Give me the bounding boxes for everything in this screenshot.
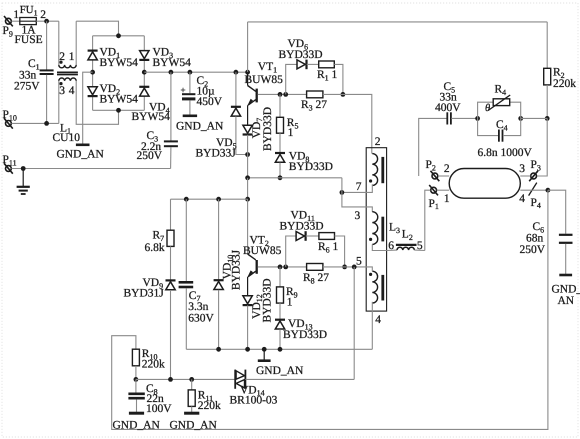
svg-text:3: 3 bbox=[355, 210, 361, 222]
svg-text:1: 1 bbox=[444, 193, 450, 205]
svg-text:2: 2 bbox=[40, 9, 46, 21]
wire bbox=[58, 21, 60, 65]
junction bbox=[278, 92, 283, 97]
svg-text:BUW85: BUW85 bbox=[243, 245, 282, 257]
junction bbox=[245, 347, 250, 352]
inductor L2 bbox=[387, 229, 425, 252]
wire bbox=[76, 21, 118, 36]
diode VD11 bbox=[280, 210, 324, 267]
wire bbox=[372, 244, 386, 250]
svg-text:4: 4 bbox=[69, 85, 75, 97]
svg-text:GND_AN: GND_AN bbox=[170, 420, 218, 432]
wire bbox=[186, 348, 372, 350]
resistor R11 bbox=[170, 379, 222, 431]
diode VD10 bbox=[214, 199, 243, 349]
terminal P9 bbox=[3, 16, 13, 38]
junction bbox=[245, 175, 250, 180]
diode VD5 bbox=[196, 72, 248, 159]
svg-text:BYD33D: BYD33D bbox=[262, 107, 274, 151]
diode VD13 bbox=[275, 303, 327, 349]
junction bbox=[116, 33, 121, 38]
svg-text:1: 1 bbox=[288, 127, 294, 139]
wire bbox=[171, 198, 248, 200]
svg-text:250V: 250V bbox=[520, 244, 546, 256]
junction bbox=[341, 92, 346, 97]
diode VD3 bbox=[139, 47, 191, 70]
junction bbox=[44, 121, 49, 126]
svg-text:GND_AN: GND_AN bbox=[176, 121, 224, 133]
junction bbox=[134, 377, 139, 382]
junction bbox=[169, 70, 174, 75]
junction bbox=[188, 70, 193, 75]
svg-text:1: 1 bbox=[13, 9, 19, 21]
junction bbox=[142, 70, 147, 75]
winding 2 (pins 3-6) bbox=[355, 210, 401, 252]
wire bbox=[342, 184, 372, 192]
junction bbox=[216, 197, 221, 202]
svg-text:275V: 275V bbox=[14, 81, 40, 93]
svg-text:R8 27: R8 27 bbox=[303, 272, 329, 285]
diode VD1 bbox=[88, 47, 138, 70]
inductor L1 (common-mode choke CU10) bbox=[53, 51, 81, 144]
junction bbox=[21, 166, 26, 171]
svg-text:GND_AN: GND_AN bbox=[256, 365, 304, 377]
svg-text:1: 1 bbox=[69, 51, 75, 63]
ground GND_AN (mid) bbox=[256, 349, 304, 377]
wire bbox=[425, 190, 431, 250]
wire (base line VT1) bbox=[258, 93, 307, 95]
capacitor C7 bbox=[179, 199, 215, 349]
terminal P4 (slash) bbox=[519, 183, 541, 211]
wire bbox=[12, 20, 20, 22]
junction bbox=[245, 197, 250, 202]
svg-text:68n: 68n bbox=[526, 233, 544, 245]
svg-text:BYW54: BYW54 bbox=[153, 57, 192, 69]
svg-text:BYD33D: BYD33D bbox=[280, 221, 324, 233]
resistor R7 bbox=[145, 199, 175, 254]
svg-text:2: 2 bbox=[375, 136, 381, 148]
terminal P2 bbox=[426, 159, 450, 181]
svg-text:4: 4 bbox=[375, 314, 381, 326]
wire bbox=[247, 178, 249, 199]
wire bbox=[520, 189, 548, 191]
wire bbox=[46, 21, 48, 69]
wire bbox=[93, 109, 145, 111]
junction bbox=[116, 108, 121, 113]
wire bbox=[12, 122, 59, 124]
wire bbox=[143, 36, 145, 111]
svg-text:6.8n 1000V: 6.8n 1000V bbox=[478, 147, 533, 159]
wire (base line VT2) bbox=[258, 266, 307, 268]
svg-text:CU10: CU10 bbox=[53, 132, 81, 144]
svg-text:400V: 400V bbox=[435, 102, 461, 114]
resistor R2 bbox=[544, 22, 577, 119]
wire bbox=[248, 177, 342, 179]
wire bbox=[323, 266, 354, 268]
wire bbox=[92, 36, 94, 111]
svg-text:220k: 220k bbox=[142, 359, 165, 371]
svg-text:GND_AN: GND_AN bbox=[57, 149, 105, 161]
wire bbox=[438, 175, 449, 177]
resistor R1 bbox=[307, 61, 343, 94]
wire bbox=[245, 378, 354, 380]
junction bbox=[262, 347, 267, 352]
terminal P10 bbox=[3, 109, 17, 128]
terminal P1 bbox=[429, 185, 450, 211]
svg-text:GND_AN: GND_AN bbox=[113, 420, 161, 432]
resistor R5 bbox=[277, 94, 299, 139]
svg-text:4: 4 bbox=[519, 193, 525, 205]
svg-text:100V: 100V bbox=[146, 403, 172, 415]
wire bbox=[93, 35, 145, 37]
wire bbox=[437, 189, 449, 191]
svg-text:θ: θ bbox=[485, 103, 490, 114]
capacitor C5 bbox=[419, 81, 478, 176]
junction bbox=[352, 265, 357, 270]
resistor R3 bbox=[301, 91, 327, 112]
terminal P11 bbox=[3, 154, 17, 174]
junction bbox=[245, 70, 250, 75]
junction bbox=[90, 70, 95, 75]
capacitor C4 bbox=[478, 118, 533, 159]
svg-text:5: 5 bbox=[417, 240, 423, 252]
svg-text:BYD33D: BYD33D bbox=[261, 278, 273, 322]
wire bbox=[520, 175, 530, 177]
capacitor C2 (electrolytic) bbox=[181, 75, 223, 108]
junction bbox=[475, 116, 480, 121]
svg-text:R3 27: R3 27 bbox=[301, 99, 327, 112]
wire bbox=[58, 81, 60, 124]
junction bbox=[283, 92, 288, 97]
svg-text:3.3n: 3.3n bbox=[188, 301, 208, 313]
junction bbox=[44, 19, 49, 24]
winding 1 (pins 2-7) bbox=[356, 136, 383, 193]
wire bbox=[248, 21, 548, 23]
wire bbox=[189, 100, 191, 114]
junction bbox=[545, 116, 550, 121]
svg-text:BYD33J: BYD33J bbox=[231, 249, 243, 290]
svg-text:3: 3 bbox=[519, 163, 525, 175]
svg-text:FUSE: FUSE bbox=[15, 34, 43, 46]
junction bbox=[546, 188, 551, 193]
capacitor C3 bbox=[137, 130, 178, 162]
wire bbox=[170, 147, 172, 169]
junction bbox=[189, 377, 194, 382]
svg-text:6.8k: 6.8k bbox=[145, 242, 165, 254]
wire bbox=[323, 94, 372, 153]
ground GND_AN (bridge) bbox=[57, 145, 105, 161]
svg-text:220k: 220k bbox=[553, 78, 576, 90]
wire bbox=[12, 168, 171, 170]
capacitor C1 bbox=[14, 58, 54, 93]
svg-text:BUW85: BUW85 bbox=[245, 74, 284, 86]
junction bbox=[342, 265, 347, 270]
svg-text:2: 2 bbox=[444, 163, 450, 175]
diode VD7 bbox=[243, 107, 274, 178]
wire bbox=[75, 21, 77, 65]
junction bbox=[518, 116, 523, 121]
junction bbox=[234, 70, 239, 75]
diode VD6 bbox=[279, 38, 323, 94]
wire bbox=[36, 20, 59, 22]
svg-text:BYD33D: BYD33D bbox=[279, 49, 323, 61]
resistor R8 bbox=[303, 264, 329, 286]
junction bbox=[278, 347, 283, 352]
wire bbox=[46, 75, 48, 124]
diode VD4 bbox=[132, 87, 171, 123]
svg-text:BYW54: BYW54 bbox=[132, 111, 171, 123]
svg-text:1: 1 bbox=[287, 297, 293, 309]
diode VD12 bbox=[243, 278, 274, 349]
wire bbox=[76, 81, 118, 124]
svg-text:BYD31J: BYD31J bbox=[124, 287, 165, 299]
resistor R9 bbox=[277, 267, 298, 309]
svg-text:BYD33D: BYD33D bbox=[283, 329, 327, 341]
earth ground bbox=[17, 169, 30, 195]
wire bbox=[83, 72, 93, 144]
wire bbox=[136, 378, 235, 380]
svg-text:33n: 33n bbox=[19, 69, 37, 81]
svg-text:5: 5 bbox=[356, 256, 362, 268]
capacitor C8 bbox=[113, 379, 173, 431]
svg-text:250V: 250V bbox=[137, 150, 163, 162]
svg-text:AN: AN bbox=[558, 295, 575, 307]
fuse FU1 bbox=[13, 4, 46, 46]
ground GND_AN (C2) bbox=[176, 116, 224, 133]
wire bbox=[144, 71, 247, 73]
svg-text:630V: 630V bbox=[188, 312, 214, 324]
junction bbox=[278, 265, 283, 270]
junction bbox=[245, 152, 250, 157]
wire bbox=[112, 190, 548, 429]
transistor VT2 (BUW85) bbox=[243, 199, 282, 296]
resistor R6 bbox=[306, 233, 345, 267]
junction bbox=[184, 197, 189, 202]
svg-text:450V: 450V bbox=[197, 96, 223, 108]
svg-text:BYD33J: BYD33J bbox=[196, 147, 237, 159]
transistor VT1 (BUW85) bbox=[245, 61, 284, 125]
wire bbox=[521, 117, 548, 119]
wire bbox=[371, 302, 373, 350]
svg-text:BYD33D: BYD33D bbox=[289, 161, 333, 173]
svg-text:BYW54: BYW54 bbox=[100, 57, 139, 69]
wire bbox=[537, 118, 547, 176]
diode VD2 bbox=[88, 83, 138, 106]
svg-text:GND_: GND_ bbox=[552, 284, 580, 296]
transformer L3 core box bbox=[366, 148, 386, 311]
capacitor C6 bbox=[520, 190, 580, 307]
lamp EL1 bbox=[449, 169, 520, 199]
diode VD9 bbox=[124, 246, 176, 379]
wire bbox=[342, 178, 372, 212]
wire bbox=[354, 267, 372, 271]
junction bbox=[216, 347, 221, 352]
resistor R10 bbox=[132, 348, 165, 379]
svg-text:220k: 220k bbox=[198, 400, 221, 412]
diode VD8 bbox=[275, 133, 333, 178]
junction bbox=[168, 377, 173, 382]
wire bbox=[170, 72, 172, 140]
junction bbox=[283, 265, 288, 270]
wire bbox=[247, 22, 249, 72]
svg-text:2: 2 bbox=[59, 51, 65, 63]
junction bbox=[278, 175, 283, 180]
diac VD14 bbox=[230, 370, 278, 407]
wire bbox=[189, 72, 191, 93]
thermistor R4 bbox=[478, 84, 521, 119]
wire bbox=[353, 267, 355, 380]
terminal P3 bbox=[519, 159, 541, 181]
svg-text:7: 7 bbox=[356, 181, 362, 193]
svg-text:3: 3 bbox=[59, 85, 65, 97]
junction bbox=[340, 190, 345, 195]
svg-text:BR100-03: BR100-03 bbox=[230, 395, 278, 407]
winding 3 (pins 5-4) bbox=[356, 256, 383, 326]
svg-text:BYW54: BYW54 bbox=[100, 94, 139, 106]
